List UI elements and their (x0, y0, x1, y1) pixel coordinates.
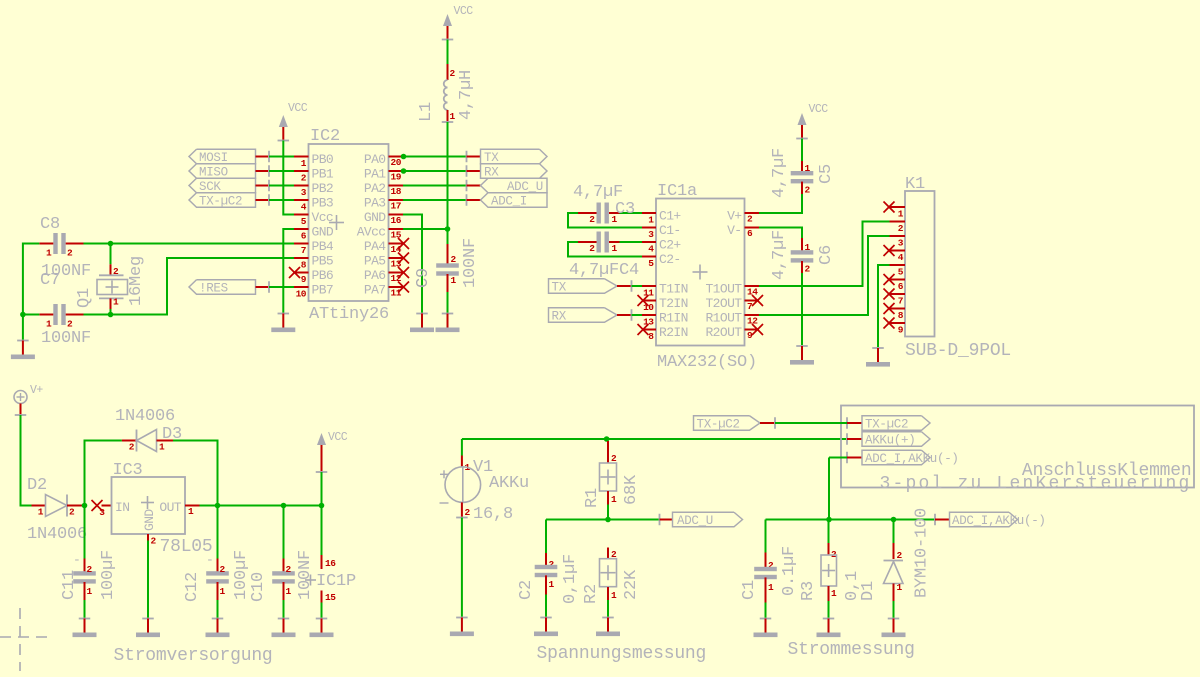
svg-text:22K: 22K (622, 569, 641, 600)
svg-text:4: 4 (898, 252, 904, 263)
svg-text:L1: L1 (417, 102, 436, 122)
svg-text:1: 1 (612, 243, 618, 254)
svg-text:PB3: PB3 (312, 196, 334, 211)
svg-text:5: 5 (648, 258, 654, 269)
svg-text:2: 2 (129, 442, 135, 453)
svg-text:8: 8 (301, 260, 307, 271)
svg-text:18: 18 (391, 186, 402, 197)
svg-text:R2: R2 (582, 584, 601, 604)
svg-text:IC1a: IC1a (657, 182, 697, 201)
svg-text:C3: C3 (615, 200, 635, 219)
svg-text:3-pol zu LenKersteuerung: 3-pol zu LenKersteuerung (879, 474, 1191, 494)
svg-text:4,7µH: 4,7µH (457, 70, 476, 120)
svg-text:2: 2 (87, 564, 93, 575)
svg-text:C1+: C1+ (659, 209, 681, 224)
svg-text:78L05: 78L05 (160, 537, 213, 557)
svg-text:TX-µC2: TX-µC2 (865, 418, 908, 432)
svg-text:PA6: PA6 (364, 268, 386, 283)
svg-text:68K: 68K (622, 474, 641, 505)
svg-text:-: - (206, 553, 213, 568)
svg-text:2: 2 (450, 68, 456, 79)
svg-text:1N4006: 1N4006 (27, 525, 87, 544)
svg-text:2: 2 (805, 264, 811, 275)
svg-text:K1: K1 (905, 175, 925, 194)
svg-text:2: 2 (589, 214, 595, 225)
svg-text:17: 17 (391, 201, 402, 212)
svg-text:PA1: PA1 (364, 167, 386, 182)
svg-text:ADC_I: ADC_I (491, 195, 527, 209)
svg-text:2: 2 (465, 507, 471, 518)
svg-text:C10: C10 (249, 572, 268, 602)
svg-text:IN: IN (115, 500, 129, 515)
svg-text:3: 3 (301, 187, 307, 198)
svg-text:2: 2 (67, 319, 73, 330)
svg-text:VCC: VCC (809, 103, 829, 116)
svg-text:IC1P: IC1P (316, 572, 356, 591)
svg-text:1: 1 (648, 215, 654, 226)
svg-text:R1OUT: R1OUT (705, 311, 742, 326)
svg-text:16,8: 16,8 (473, 505, 513, 524)
svg-text:20: 20 (391, 157, 402, 168)
svg-text:-: - (73, 553, 80, 568)
svg-text:R3: R3 (799, 581, 818, 601)
svg-text:V-: V- (727, 223, 741, 238)
svg-text:1: 1 (831, 588, 837, 599)
svg-text:PB2: PB2 (312, 181, 334, 196)
svg-text:VCC: VCC (454, 5, 474, 18)
svg-text:PA2: PA2 (364, 181, 386, 196)
svg-text:19: 19 (391, 172, 402, 183)
svg-text:BYM10-100: BYM10-100 (913, 508, 932, 598)
svg-text:TX: TX (552, 281, 567, 295)
svg-text:3: 3 (898, 238, 904, 249)
svg-text:MISO: MISO (199, 166, 228, 180)
svg-text:C9: C9 (414, 268, 433, 288)
svg-text:1: 1 (549, 579, 555, 590)
svg-text:ADC_U: ADC_U (507, 180, 543, 194)
svg-text:GND: GND (142, 509, 157, 531)
svg-text:C5: C5 (817, 164, 836, 184)
svg-text:1: 1 (768, 582, 774, 593)
svg-text:PB1: PB1 (312, 167, 334, 182)
svg-text:1: 1 (301, 158, 307, 169)
svg-text:10: 10 (643, 302, 654, 313)
svg-text:6: 6 (898, 281, 904, 292)
svg-text:GND: GND (364, 210, 386, 225)
svg-text:T2OUT: T2OUT (705, 296, 742, 311)
svg-text:2: 2 (67, 248, 73, 259)
svg-text:1: 1 (188, 506, 194, 517)
svg-text:5: 5 (301, 216, 307, 227)
svg-text:7: 7 (301, 245, 307, 256)
svg-text:15: 15 (325, 592, 336, 603)
svg-text:13: 13 (643, 317, 654, 328)
svg-text:100NF: 100NF (41, 329, 91, 348)
svg-text:TX: TX (484, 151, 499, 165)
svg-text:RX: RX (484, 166, 499, 180)
svg-text:TX-µC2: TX-µC2 (199, 195, 242, 209)
svg-text:C2: C2 (517, 580, 536, 600)
svg-text:TX-µC2: TX-µC2 (697, 418, 740, 432)
svg-text:C8: C8 (40, 215, 60, 234)
svg-text:4: 4 (301, 202, 307, 213)
svg-text:Spannungsmessung: Spannungsmessung (537, 644, 707, 664)
svg-text:R2OUT: R2OUT (705, 325, 742, 340)
svg-text:1: 1 (451, 275, 457, 286)
svg-text:SUB-D_9POL: SUB-D_9POL (905, 341, 1011, 361)
svg-text:AVcc: AVcc (357, 225, 386, 240)
svg-text:AKKu: AKKu (489, 474, 529, 493)
svg-text:ATtiny26: ATtiny26 (309, 305, 389, 324)
svg-text:PA5: PA5 (364, 254, 386, 269)
svg-text:RX: RX (552, 310, 567, 324)
svg-text:VCC: VCC (288, 102, 308, 115)
svg-text:VCC: VCC (328, 431, 348, 444)
svg-text:1: 1 (611, 590, 617, 601)
svg-text:1: 1 (897, 582, 903, 593)
svg-text:6: 6 (301, 231, 307, 242)
svg-text:16: 16 (391, 215, 402, 226)
svg-text:IC3: IC3 (113, 461, 143, 480)
svg-text:ADC_I,AKKu(-): ADC_I,AKKu(-) (952, 514, 1046, 528)
svg-text:9: 9 (301, 274, 307, 285)
svg-text:PB5: PB5 (312, 254, 334, 269)
svg-text:8: 8 (648, 331, 654, 342)
svg-text:V+: V+ (727, 209, 742, 224)
svg-text:8: 8 (898, 310, 904, 321)
svg-text:IC2: IC2 (310, 127, 340, 146)
svg-text:11: 11 (643, 288, 654, 299)
svg-text:D3: D3 (162, 425, 182, 444)
svg-text:6: 6 (747, 228, 753, 239)
svg-text:Vcc: Vcc (312, 210, 334, 225)
svg-text:2: 2 (747, 214, 753, 225)
svg-text:C1-: C1- (659, 223, 681, 238)
svg-text:C7: C7 (40, 271, 60, 290)
svg-text:D2: D2 (27, 476, 47, 495)
svg-text:Strommessung: Strommessung (788, 640, 915, 660)
svg-text:C2-: C2- (659, 252, 681, 267)
svg-text:V+: V+ (30, 384, 43, 397)
svg-text:C1: C1 (740, 580, 759, 600)
svg-text:1N4006: 1N4006 (115, 407, 175, 426)
svg-text:D1: D1 (859, 581, 878, 601)
svg-text:2: 2 (69, 507, 75, 518)
svg-text:2: 2 (898, 223, 904, 234)
svg-text:PB6: PB6 (312, 268, 334, 283)
svg-text:1: 1 (898, 209, 904, 220)
svg-text:PA7: PA7 (364, 283, 386, 298)
svg-text:7: 7 (747, 301, 753, 312)
svg-text:2: 2 (589, 243, 595, 254)
svg-text:2: 2 (220, 564, 226, 575)
svg-text:OUT: OUT (159, 500, 181, 515)
svg-text:100µF: 100µF (99, 550, 118, 600)
svg-text:100NF: 100NF (461, 238, 480, 288)
svg-text:T1IN: T1IN (659, 282, 688, 297)
svg-text:1: 1 (38, 507, 44, 518)
svg-text:4,7µFC4: 4,7µFC4 (569, 261, 639, 280)
svg-text:1: 1 (450, 111, 456, 122)
svg-text:1: 1 (220, 586, 226, 597)
svg-text:T2IN: T2IN (659, 296, 688, 311)
svg-text:4,7µF: 4,7µF (770, 148, 789, 198)
svg-text:16: 16 (325, 558, 336, 569)
svg-text:PA4: PA4 (364, 239, 386, 254)
svg-text:GND: GND (312, 225, 334, 240)
svg-text:4: 4 (648, 244, 654, 255)
svg-text:MOSI: MOSI (199, 151, 228, 165)
svg-text:9: 9 (898, 325, 904, 336)
svg-text:2: 2 (897, 550, 903, 561)
svg-text:1: 1 (286, 586, 292, 597)
svg-text:R1IN: R1IN (659, 311, 688, 326)
svg-text:1: 1 (611, 494, 617, 505)
svg-text:R1: R1 (583, 488, 602, 508)
svg-text:1: 1 (46, 319, 52, 330)
svg-text:PB0: PB0 (312, 152, 334, 167)
svg-text:10: 10 (296, 289, 307, 300)
svg-text:1: 1 (87, 586, 93, 597)
svg-text:ADC_I,AKKu(-): ADC_I,AKKu(-) (865, 452, 959, 466)
svg-text:9: 9 (747, 330, 753, 341)
svg-text:5: 5 (898, 267, 904, 278)
svg-text:0,1µF: 0,1µF (561, 554, 580, 604)
svg-text:2: 2 (286, 564, 292, 575)
svg-text:Q1: Q1 (75, 288, 94, 308)
svg-text:!RES: !RES (199, 282, 228, 296)
svg-text:4,7µF: 4,7µF (770, 230, 789, 280)
svg-text:3: 3 (648, 229, 654, 240)
svg-text:C2+: C2+ (659, 238, 681, 253)
svg-text:0.1µF: 0.1µF (780, 546, 799, 596)
svg-text:C6: C6 (817, 245, 836, 265)
svg-text:3: 3 (99, 507, 105, 518)
svg-text:ADC_U: ADC_U (677, 514, 713, 528)
svg-text:2: 2 (301, 173, 307, 184)
svg-text:Stromversorgung: Stromversorgung (114, 646, 273, 666)
svg-text:PB7: PB7 (312, 283, 334, 298)
svg-text:MAX232(SO): MAX232(SO) (657, 353, 757, 372)
svg-text:PA0: PA0 (364, 152, 386, 167)
svg-text:SCK: SCK (199, 180, 221, 194)
svg-text:16Meg: 16Meg (127, 256, 146, 306)
svg-text:PB4: PB4 (312, 239, 334, 254)
svg-text:PA3: PA3 (364, 196, 386, 211)
svg-text:C12: C12 (183, 572, 202, 602)
svg-text:C11: C11 (60, 570, 79, 600)
svg-text:1: 1 (113, 297, 119, 308)
svg-text:7: 7 (898, 296, 904, 307)
svg-text:AKKu(+): AKKu(+) (865, 434, 915, 448)
svg-text:1: 1 (46, 248, 52, 259)
svg-text:2: 2 (151, 536, 157, 547)
svg-text:T1OUT: T1OUT (705, 282, 742, 297)
svg-text:100NF: 100NF (296, 550, 315, 600)
svg-text:R2IN: R2IN (659, 325, 688, 340)
svg-text:2: 2 (805, 185, 811, 196)
